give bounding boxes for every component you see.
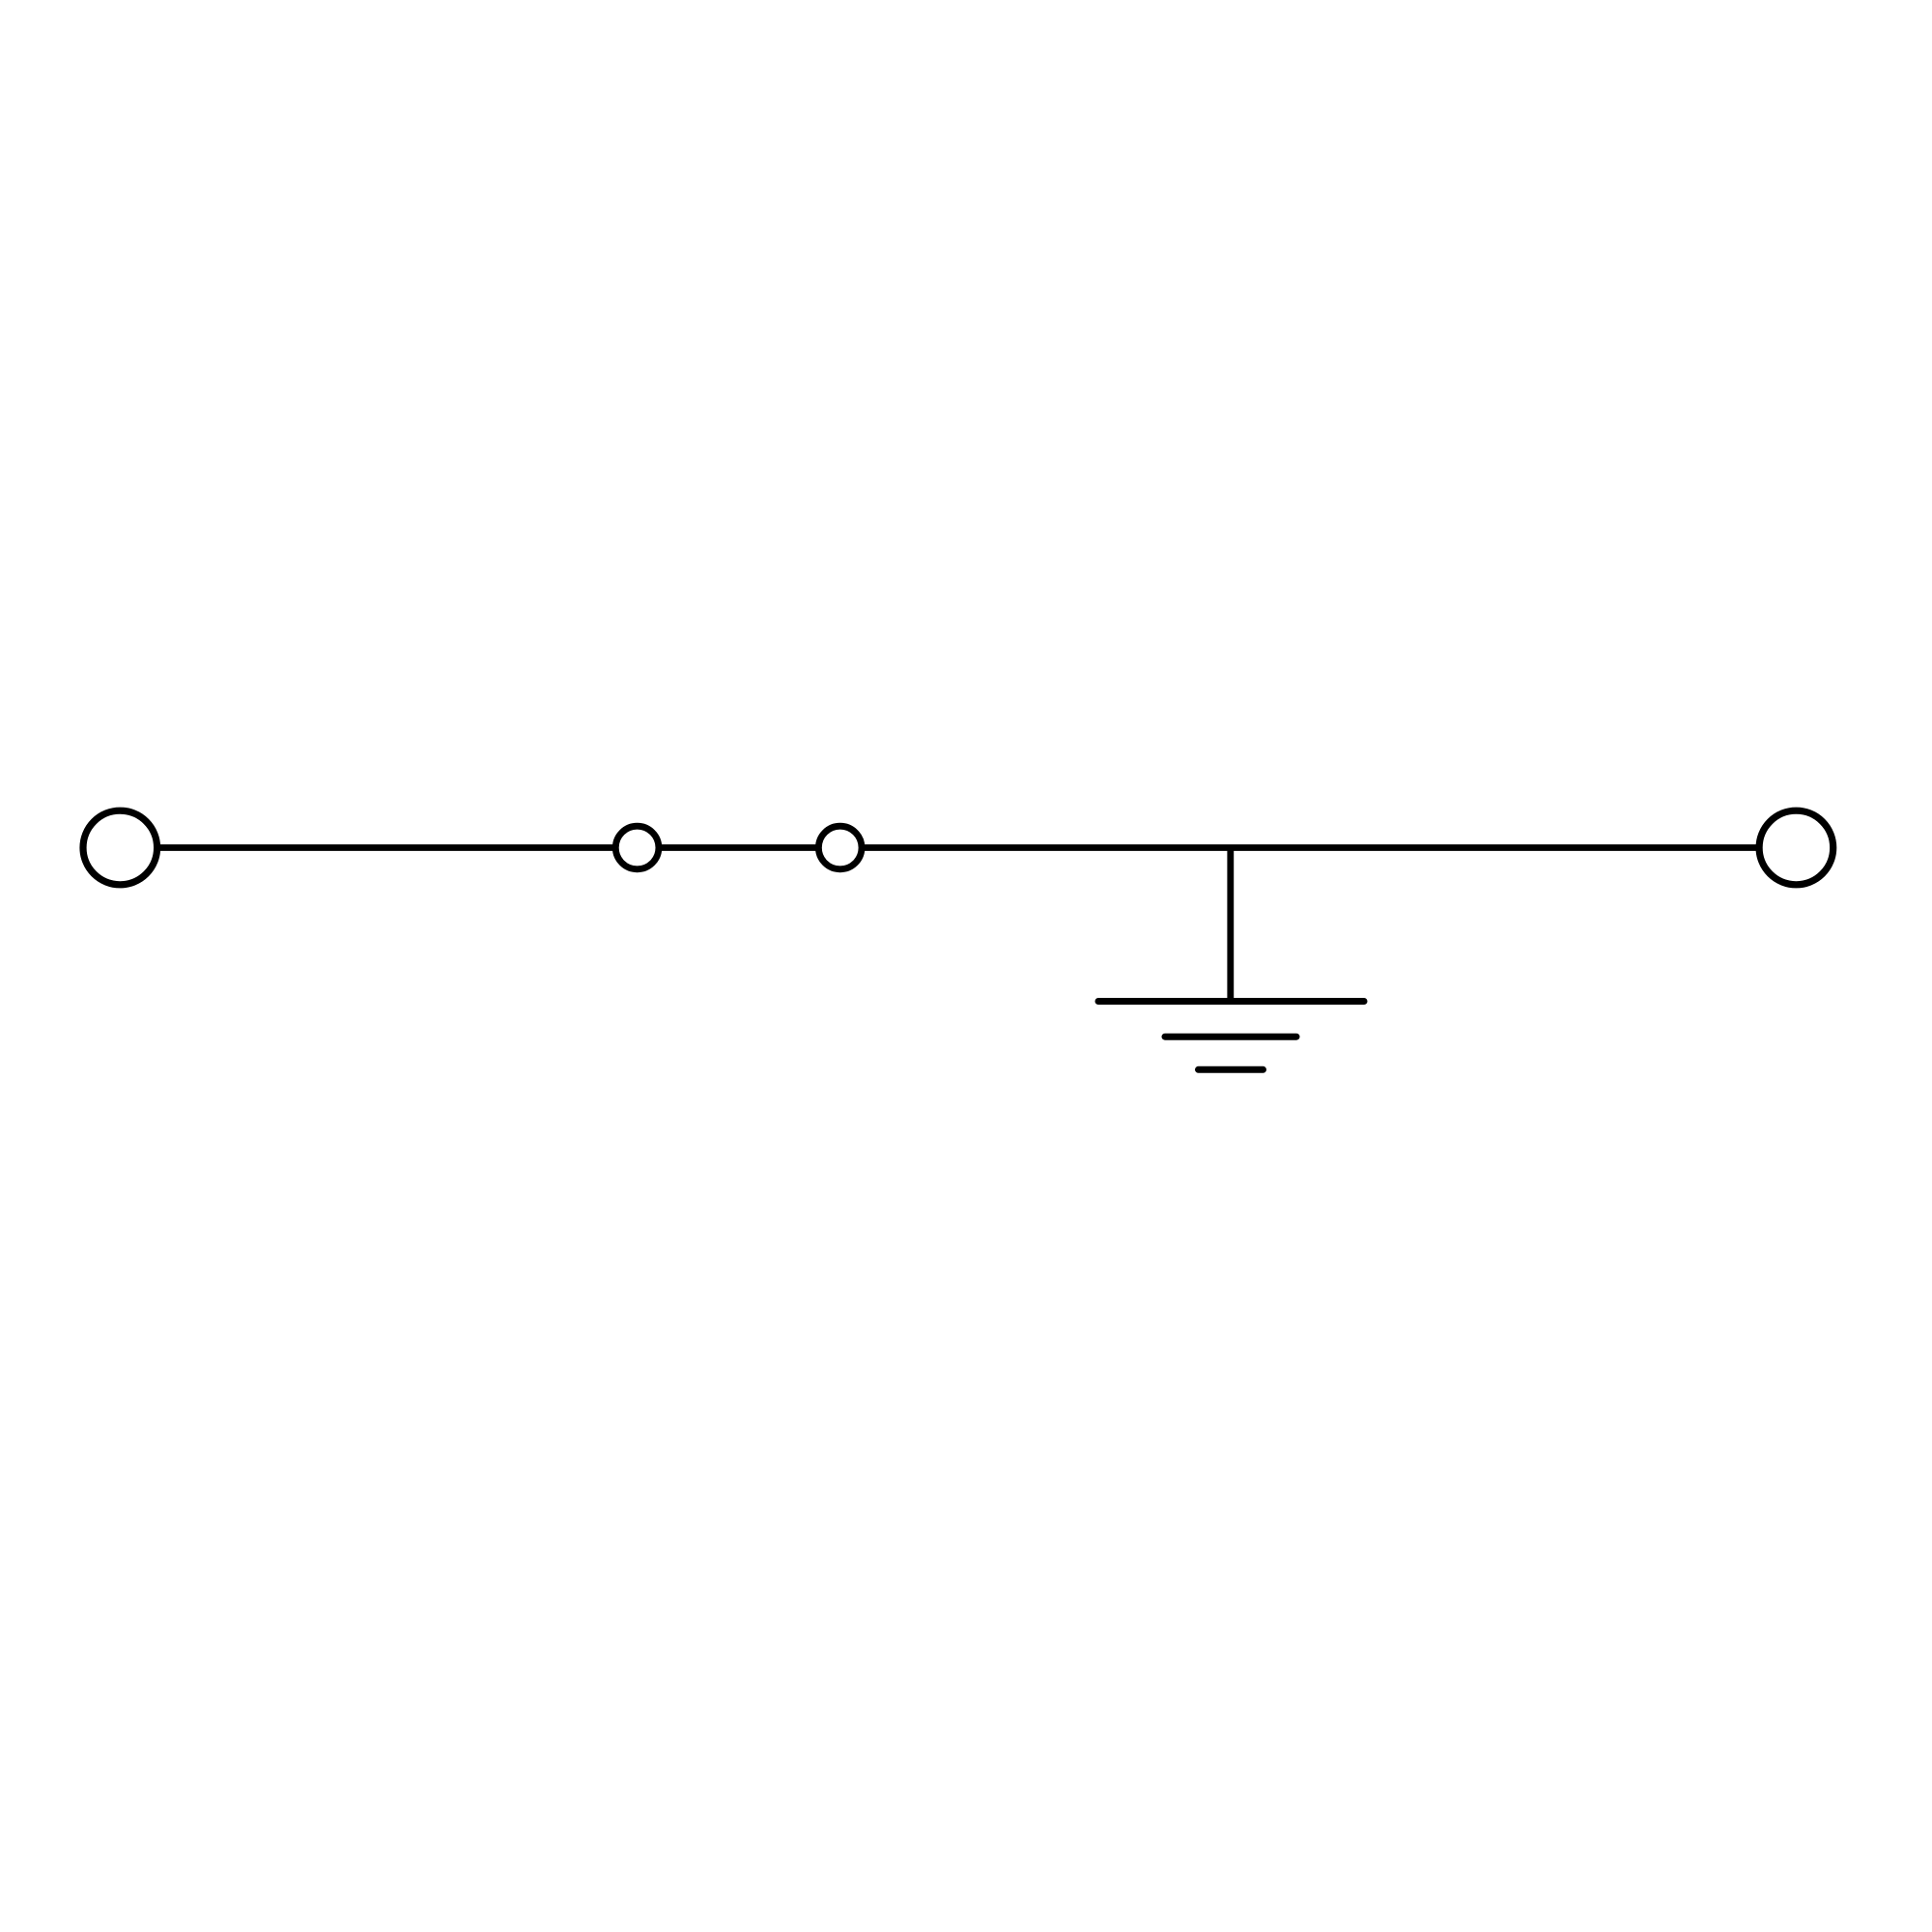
ground bbox=[1098, 1002, 1364, 1070]
junction circle 2 bbox=[818, 826, 862, 869]
ground stem wire bbox=[1227, 848, 1234, 1002]
wire bbox=[120, 844, 1796, 851]
terminal circle left bbox=[83, 810, 157, 885]
junction circle 1 bbox=[615, 826, 659, 869]
terminal circle right bbox=[1759, 810, 1833, 885]
